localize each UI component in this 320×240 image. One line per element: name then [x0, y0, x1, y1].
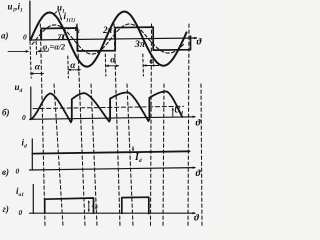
panel g: y-axis: [32, 185, 34, 214]
svg-text:α: α: [35, 63, 41, 73]
Id annotation arrow (panel v): [132, 147, 134, 151]
svg-text:в): в): [2, 167, 9, 177]
svg-text:0: 0: [23, 32, 27, 41]
svg-text:б): б): [2, 108, 10, 118]
short dashed stubs at k*pi: [30, 42, 31, 79]
panel b: y-axis: [30, 87, 32, 120]
Ud arrow: [172, 108, 174, 117]
svg-text:0: 0: [19, 208, 23, 217]
alpha dimension 3: [106, 65, 118, 67]
svg-text:0: 0: [22, 113, 26, 122]
panel a: x-axis: [30, 38, 197, 40]
svg-text:г): г): [3, 204, 9, 214]
svg-text:α: α: [150, 57, 156, 67]
i1(1) fundamental dashed sine: [32, 24, 184, 54]
leader arrow for i1(1) label: [59, 11, 62, 20]
panel v: x-axis: [30, 168, 196, 170]
panel b: x-axis: [30, 117, 196, 120]
svg-text:π: π: [58, 32, 67, 42]
id constant current line: [32, 151, 189, 153]
Ud average dashed line: [33, 106, 184, 108]
phi1 dimension arrows: [8, 50, 28, 52]
svg-text:α: α: [70, 61, 76, 71]
ia1 thyristor current pulse 2: [122, 197, 149, 213]
leader arrow for i1 label: [68, 27, 75, 29]
Id height dimension arrow (panel g): [88, 201, 90, 211]
svg-text:3π: 3π: [134, 39, 147, 49]
dashed vertical grid (firing-angle lines): [40, 24, 45, 226]
leader for u1 label: [54, 12, 57, 14]
ia1 thyristor current pulse 1: [45, 198, 94, 213]
svg-text:α: α: [110, 56, 116, 66]
panel g: x-axis: [30, 212, 196, 214]
panel v: y-axis: [31, 139, 33, 170]
svg-text:2π: 2π: [102, 25, 114, 35]
svg-text:φ1=α/2: φ1=α/2: [43, 42, 66, 52]
dashed vertical grid (second set): [54, 84, 63, 226]
u1 sine curve: [31, 12, 187, 67]
i1 square wave: [41, 27, 190, 51]
svg-text:0: 0: [16, 166, 20, 175]
ud rectified voltage teeth: [31, 91, 182, 122]
panel a: y-axis: [29, 1, 31, 40]
alpha dimension 2: [69, 69, 80, 71]
svg-text:а): а): [1, 31, 9, 41]
alpha dimension 1: [31, 73, 43, 75]
alpha dimension 4: [144, 65, 159, 67]
